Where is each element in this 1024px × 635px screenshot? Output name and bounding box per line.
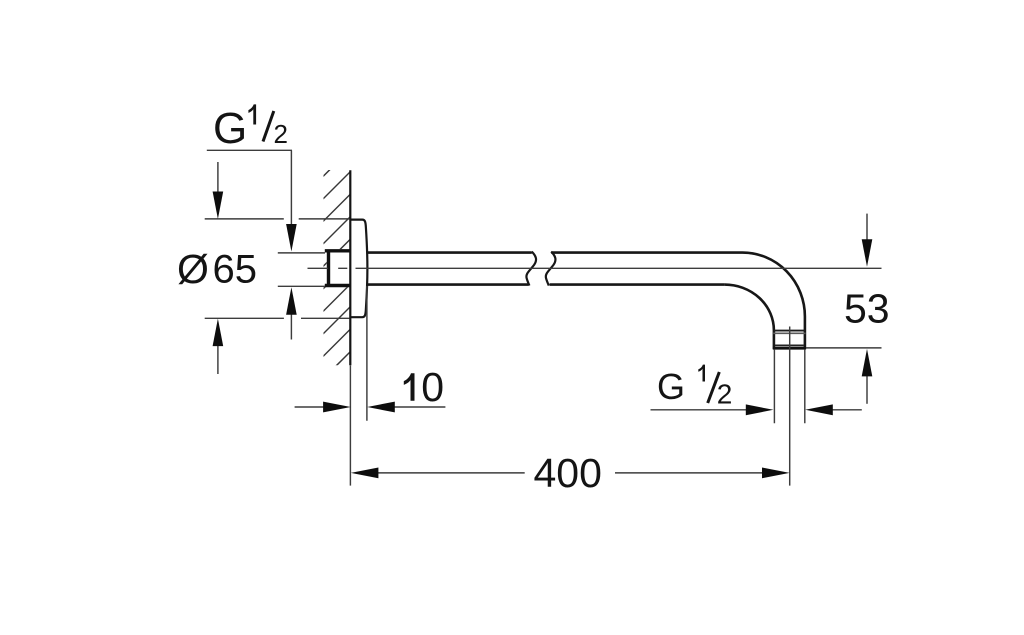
svg-text:Ø: Ø [177, 246, 209, 292]
svg-text:400: 400 [534, 450, 602, 496]
svg-text:53: 53 [844, 286, 890, 332]
svg-text:2: 2 [717, 378, 733, 409]
svg-text:G: G [657, 366, 685, 407]
svg-text:0: 0 [421, 364, 444, 410]
svg-text:65: 65 [213, 248, 258, 292]
svg-text:2: 2 [274, 119, 288, 149]
svg-text:G: G [213, 104, 247, 153]
